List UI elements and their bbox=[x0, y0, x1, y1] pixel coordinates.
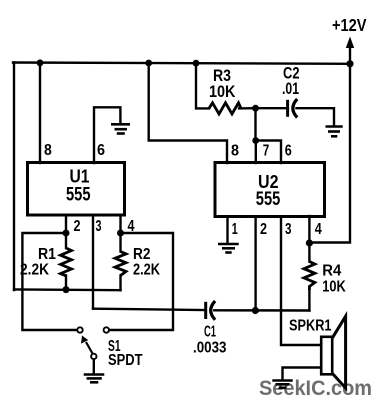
svg-text:3: 3 bbox=[96, 218, 102, 235]
svg-text:6: 6 bbox=[97, 142, 105, 159]
svg-text:2: 2 bbox=[260, 221, 267, 238]
svg-text:.0033: .0033 bbox=[193, 339, 227, 356]
svg-text:555: 555 bbox=[256, 189, 281, 210]
svg-text:C1: C1 bbox=[204, 323, 216, 340]
svg-text:2.2K: 2.2K bbox=[20, 262, 49, 279]
svg-text:4: 4 bbox=[315, 221, 322, 238]
svg-text:4: 4 bbox=[128, 218, 135, 235]
svg-text:8: 8 bbox=[231, 142, 239, 159]
svg-text:2.2K: 2.2K bbox=[133, 262, 160, 279]
svg-text:R1: R1 bbox=[38, 246, 56, 263]
svg-text:.01: .01 bbox=[282, 80, 299, 98]
svg-text:3: 3 bbox=[285, 221, 292, 238]
svg-text:555: 555 bbox=[66, 184, 91, 205]
svg-text:10K: 10K bbox=[322, 278, 346, 295]
svg-text:8: 8 bbox=[44, 142, 52, 159]
svg-text:R2: R2 bbox=[133, 246, 151, 263]
svg-text:SPDT: SPDT bbox=[108, 352, 143, 369]
svg-text:10K: 10K bbox=[209, 83, 236, 101]
svg-text:7: 7 bbox=[263, 142, 270, 159]
svg-text:SPKR1: SPKR1 bbox=[289, 317, 332, 334]
svg-text:+12V: +12V bbox=[332, 15, 367, 35]
svg-text:1: 1 bbox=[232, 221, 238, 238]
svg-text:R4: R4 bbox=[322, 263, 341, 280]
svg-text:6: 6 bbox=[285, 142, 292, 159]
svg-text:2: 2 bbox=[74, 218, 81, 235]
